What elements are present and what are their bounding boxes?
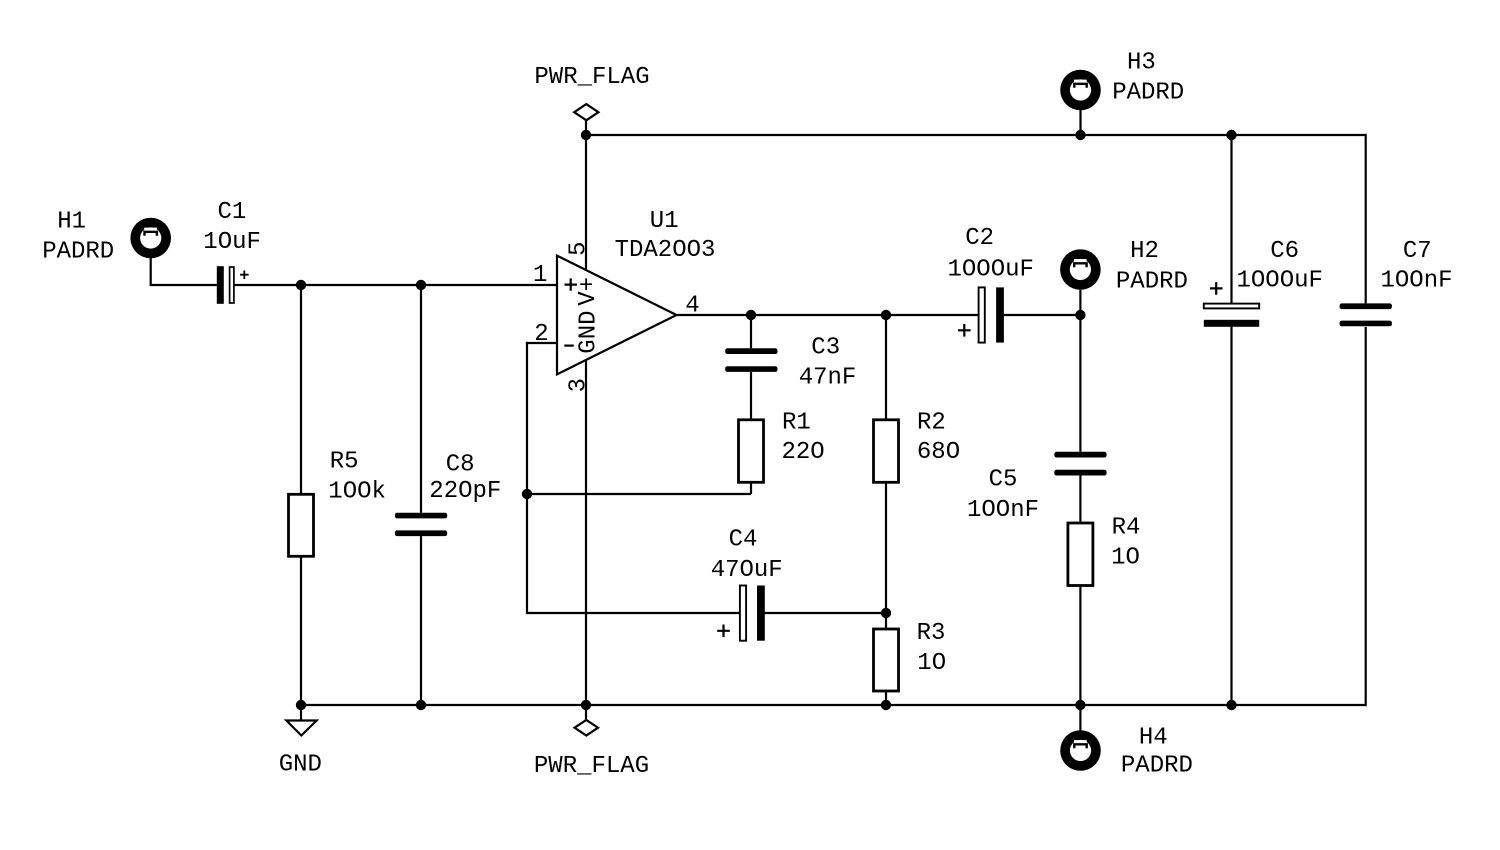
wire R4 bottom lead xyxy=(1079,586,1081,706)
wire R1 bottom lead xyxy=(750,482,752,494)
svg-text:C7: C7 xyxy=(1403,238,1432,265)
svg-text:68O: 68O xyxy=(917,439,960,466)
resistor R5 xyxy=(289,494,314,556)
svg-text:R2: R2 xyxy=(917,410,946,437)
wire top rail xyxy=(586,134,1366,136)
junction dot C6 top xyxy=(1226,130,1236,140)
wire C6 branch upper xyxy=(1230,135,1232,303)
wire H4 stem xyxy=(1079,705,1081,731)
svg-text:V+: V+ xyxy=(575,277,602,306)
svg-text:R1: R1 xyxy=(782,410,811,437)
wire H1 stem xyxy=(150,258,152,287)
capacitor C6 xyxy=(1204,304,1259,309)
svg-text:H2: H2 xyxy=(1130,238,1159,265)
svg-text:4: 4 xyxy=(685,293,699,320)
wire R1 top lead xyxy=(750,372,752,420)
wire R5 branch lower xyxy=(300,556,302,705)
resistor R3 xyxy=(874,629,899,691)
resistor R2 xyxy=(874,420,899,483)
svg-text:GND: GND xyxy=(279,752,322,779)
wire output rail right xyxy=(1004,314,1080,316)
svg-text:C5: C5 xyxy=(989,467,1018,494)
capacitor C8 xyxy=(395,513,447,519)
svg-text:47OuF: 47OuF xyxy=(711,557,783,584)
svg-text:1O: 1O xyxy=(1111,545,1140,572)
junction dot feedback xyxy=(522,489,532,499)
capacitor C5 xyxy=(1054,452,1106,458)
svg-text:1OOOuF: 1OOOuF xyxy=(948,257,1034,284)
svg-text:PWR_FLAG: PWR_FLAG xyxy=(534,753,649,780)
svg-text:PADRD: PADRD xyxy=(1112,80,1184,107)
wire R5 branch upper xyxy=(300,285,302,494)
wire C3 branch xyxy=(750,315,752,348)
capacitor C1 xyxy=(217,266,224,304)
pad H2 xyxy=(1060,249,1101,290)
pin label - (pin 2) xyxy=(564,345,574,347)
wire pwr_flag top stem xyxy=(585,120,587,135)
pin label + (pin 1) xyxy=(565,278,577,290)
wire C4 horizontal left xyxy=(527,612,739,614)
svg-text:C8: C8 xyxy=(446,452,475,479)
svg-text:22OpF: 22OpF xyxy=(429,478,501,505)
svg-text:C4: C4 xyxy=(729,527,758,554)
junction dot H3 xyxy=(1075,130,1085,140)
svg-text:3: 3 xyxy=(566,378,593,392)
svg-text:H1: H1 xyxy=(57,209,86,236)
wire pin 2 horizontal xyxy=(526,342,557,344)
capacitor C7 xyxy=(1340,303,1392,309)
wire C8 branch upper xyxy=(420,285,422,513)
junction dot R4 bottom xyxy=(1075,700,1085,710)
svg-text:PWR_FLAG: PWR_FLAG xyxy=(534,64,649,91)
svg-text:1: 1 xyxy=(533,262,547,289)
junction dot C4-R3 xyxy=(881,608,891,618)
junction dot C8 top xyxy=(416,280,426,290)
svg-text:1OOnF: 1OOnF xyxy=(1381,267,1453,294)
svg-text:C1: C1 xyxy=(218,199,247,226)
svg-text:1OuF: 1OuF xyxy=(203,229,261,256)
svg-text:1O: 1O xyxy=(917,650,946,677)
power flag top xyxy=(574,104,598,120)
wire C5-R4 link xyxy=(1079,475,1081,523)
svg-text:PADRD: PADRD xyxy=(1116,268,1188,295)
wire pin 5 xyxy=(585,135,587,270)
svg-text:U1: U1 xyxy=(650,208,679,235)
svg-text:TDA2OO3: TDA2OO3 xyxy=(615,237,716,264)
svg-text:C6: C6 xyxy=(1270,238,1299,265)
svg-text:1OOOuF: 1OOOuF xyxy=(1237,267,1323,294)
svg-text:47nF: 47nF xyxy=(799,364,857,391)
resistor R1 xyxy=(739,420,764,483)
svg-text:5: 5 xyxy=(566,241,593,255)
wire C4 horizontal right xyxy=(764,612,886,614)
junction dot R2 top xyxy=(881,310,891,320)
wire pwr_flag bottom stem xyxy=(585,705,587,720)
svg-text:1OOk: 1OOk xyxy=(328,479,386,506)
junction dot C3 top xyxy=(746,310,756,320)
junction dot pin3 bottom xyxy=(581,700,591,710)
junction dot GND xyxy=(296,700,306,710)
wire R3 bottom lead xyxy=(885,691,887,705)
svg-text:PADRD: PADRD xyxy=(1121,753,1193,780)
ground symbol xyxy=(286,721,316,736)
wire right rail upper xyxy=(1365,134,1367,304)
svg-text:22O: 22O xyxy=(782,439,825,466)
svg-text:2: 2 xyxy=(534,321,548,348)
junction dot C6 bottom xyxy=(1226,700,1236,710)
junction dot R3 bottom xyxy=(881,700,891,710)
resistor R4 xyxy=(1068,523,1093,586)
wire H3 stem xyxy=(1079,109,1081,135)
junction dot top pwr_flag xyxy=(581,130,591,140)
capacitor C3 xyxy=(725,348,777,354)
wire feedback horizontal xyxy=(527,493,751,495)
junction dot H2 xyxy=(1075,310,1085,320)
wire R2 branch lower xyxy=(885,482,887,629)
svg-text:PADRD: PADRD xyxy=(42,239,114,266)
wire input rail right xyxy=(235,284,558,286)
svg-text:C2: C2 xyxy=(965,225,994,252)
svg-text:C3: C3 xyxy=(811,334,840,361)
svg-text:H3: H3 xyxy=(1127,50,1156,77)
wire input rail left xyxy=(151,284,217,286)
pad H4 xyxy=(1060,730,1101,771)
svg-text:R3: R3 xyxy=(917,620,946,647)
wire right rail lower xyxy=(1365,327,1367,706)
wire pin 3 xyxy=(585,360,587,705)
power flag bottom xyxy=(575,720,598,736)
svg-text:R5: R5 xyxy=(330,449,359,476)
wire pin 2 vertical xyxy=(526,342,528,614)
svg-text:GND: GND xyxy=(575,310,602,353)
svg-text:1OOnF: 1OOnF xyxy=(967,497,1039,524)
capacitor C4 xyxy=(740,586,746,641)
wire H2 stem xyxy=(1079,290,1081,315)
wire C8 branch lower xyxy=(420,536,422,705)
wire R2 branch upper xyxy=(885,315,887,420)
svg-text:R4: R4 xyxy=(1112,515,1141,542)
pad H1 xyxy=(130,218,171,259)
junction dot R5 top xyxy=(296,280,306,290)
svg-text:H4: H4 xyxy=(1139,725,1168,752)
wire bottom rail xyxy=(301,704,1366,706)
wire C5 branch upper xyxy=(1079,315,1081,452)
wire C6 branch lower xyxy=(1230,327,1232,705)
junction dot C8 bottom xyxy=(416,700,426,710)
pad H3 xyxy=(1060,70,1101,111)
capacitor C2 xyxy=(979,287,985,342)
op-amp U1 xyxy=(557,256,677,375)
wire GND stem xyxy=(300,705,302,721)
wire output rail left xyxy=(677,314,979,316)
